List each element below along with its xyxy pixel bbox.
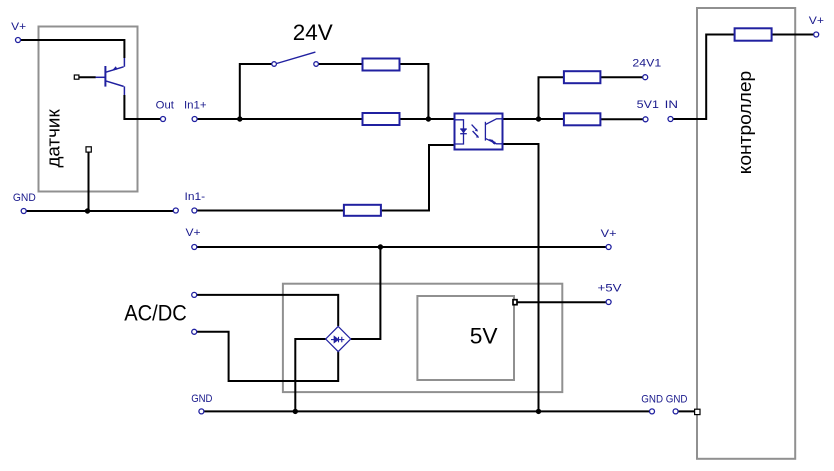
svg-text:GND: GND <box>191 393 212 405</box>
svg-text:V+: V+ <box>11 21 26 33</box>
svg-text:24V1: 24V1 <box>632 58 661 70</box>
svg-text:V+: V+ <box>601 228 617 240</box>
svg-text:+5V: +5V <box>598 283 623 295</box>
svg-text:контроллер: контроллер <box>735 71 755 175</box>
svg-text:датчик: датчик <box>44 109 64 168</box>
svg-text:In1-: In1- <box>185 191 206 203</box>
svg-text:GND GND: GND GND <box>641 393 687 405</box>
svg-text:V+: V+ <box>809 15 824 27</box>
svg-text:24V: 24V <box>293 20 333 45</box>
svg-text:IN: IN <box>665 99 678 111</box>
svg-text:AC/DC: AC/DC <box>124 300 187 325</box>
svg-text:In1+: In1+ <box>184 100 207 112</box>
svg-text:5V1: 5V1 <box>637 99 659 111</box>
svg-text:GND: GND <box>13 192 36 204</box>
svg-text:Out: Out <box>156 100 174 112</box>
svg-text:5V: 5V <box>470 324 498 349</box>
svg-text:V+: V+ <box>186 227 201 239</box>
